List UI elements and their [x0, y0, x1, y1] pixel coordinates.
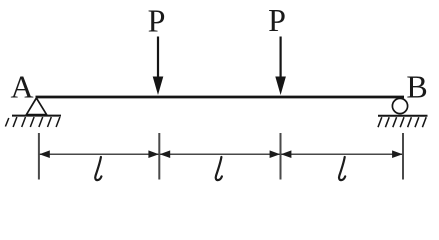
beam — [36, 96, 405, 99]
roller support at B — [392, 98, 407, 113]
dimension line segment 2 — [160, 150, 280, 158]
load P2 arrow — [275, 37, 286, 96]
dimension line segment 3 — [281, 150, 403, 158]
dimension label l1 — [95, 157, 101, 180]
ground line at B — [378, 115, 428, 117]
ground hatching at B — [378, 117, 426, 127]
dimension label l3 — [339, 157, 345, 180]
pin support at A — [26, 98, 46, 115]
load P1 arrow — [153, 37, 164, 96]
svg-text:P: P — [268, 2, 286, 38]
dimension tick at A — [38, 133, 40, 180]
dimension line segment 1 — [39, 150, 159, 158]
svg-text:B: B — [406, 69, 427, 105]
dimension tick under P2 — [280, 133, 282, 180]
dimension tick under P1 — [158, 133, 160, 180]
dimension tick at B — [402, 133, 404, 180]
svg-text:P: P — [148, 2, 166, 38]
ground line at A — [12, 115, 61, 117]
svg-text:A: A — [10, 69, 33, 105]
dimension label l2 — [216, 157, 222, 180]
ground hatching at A — [5, 117, 60, 127]
